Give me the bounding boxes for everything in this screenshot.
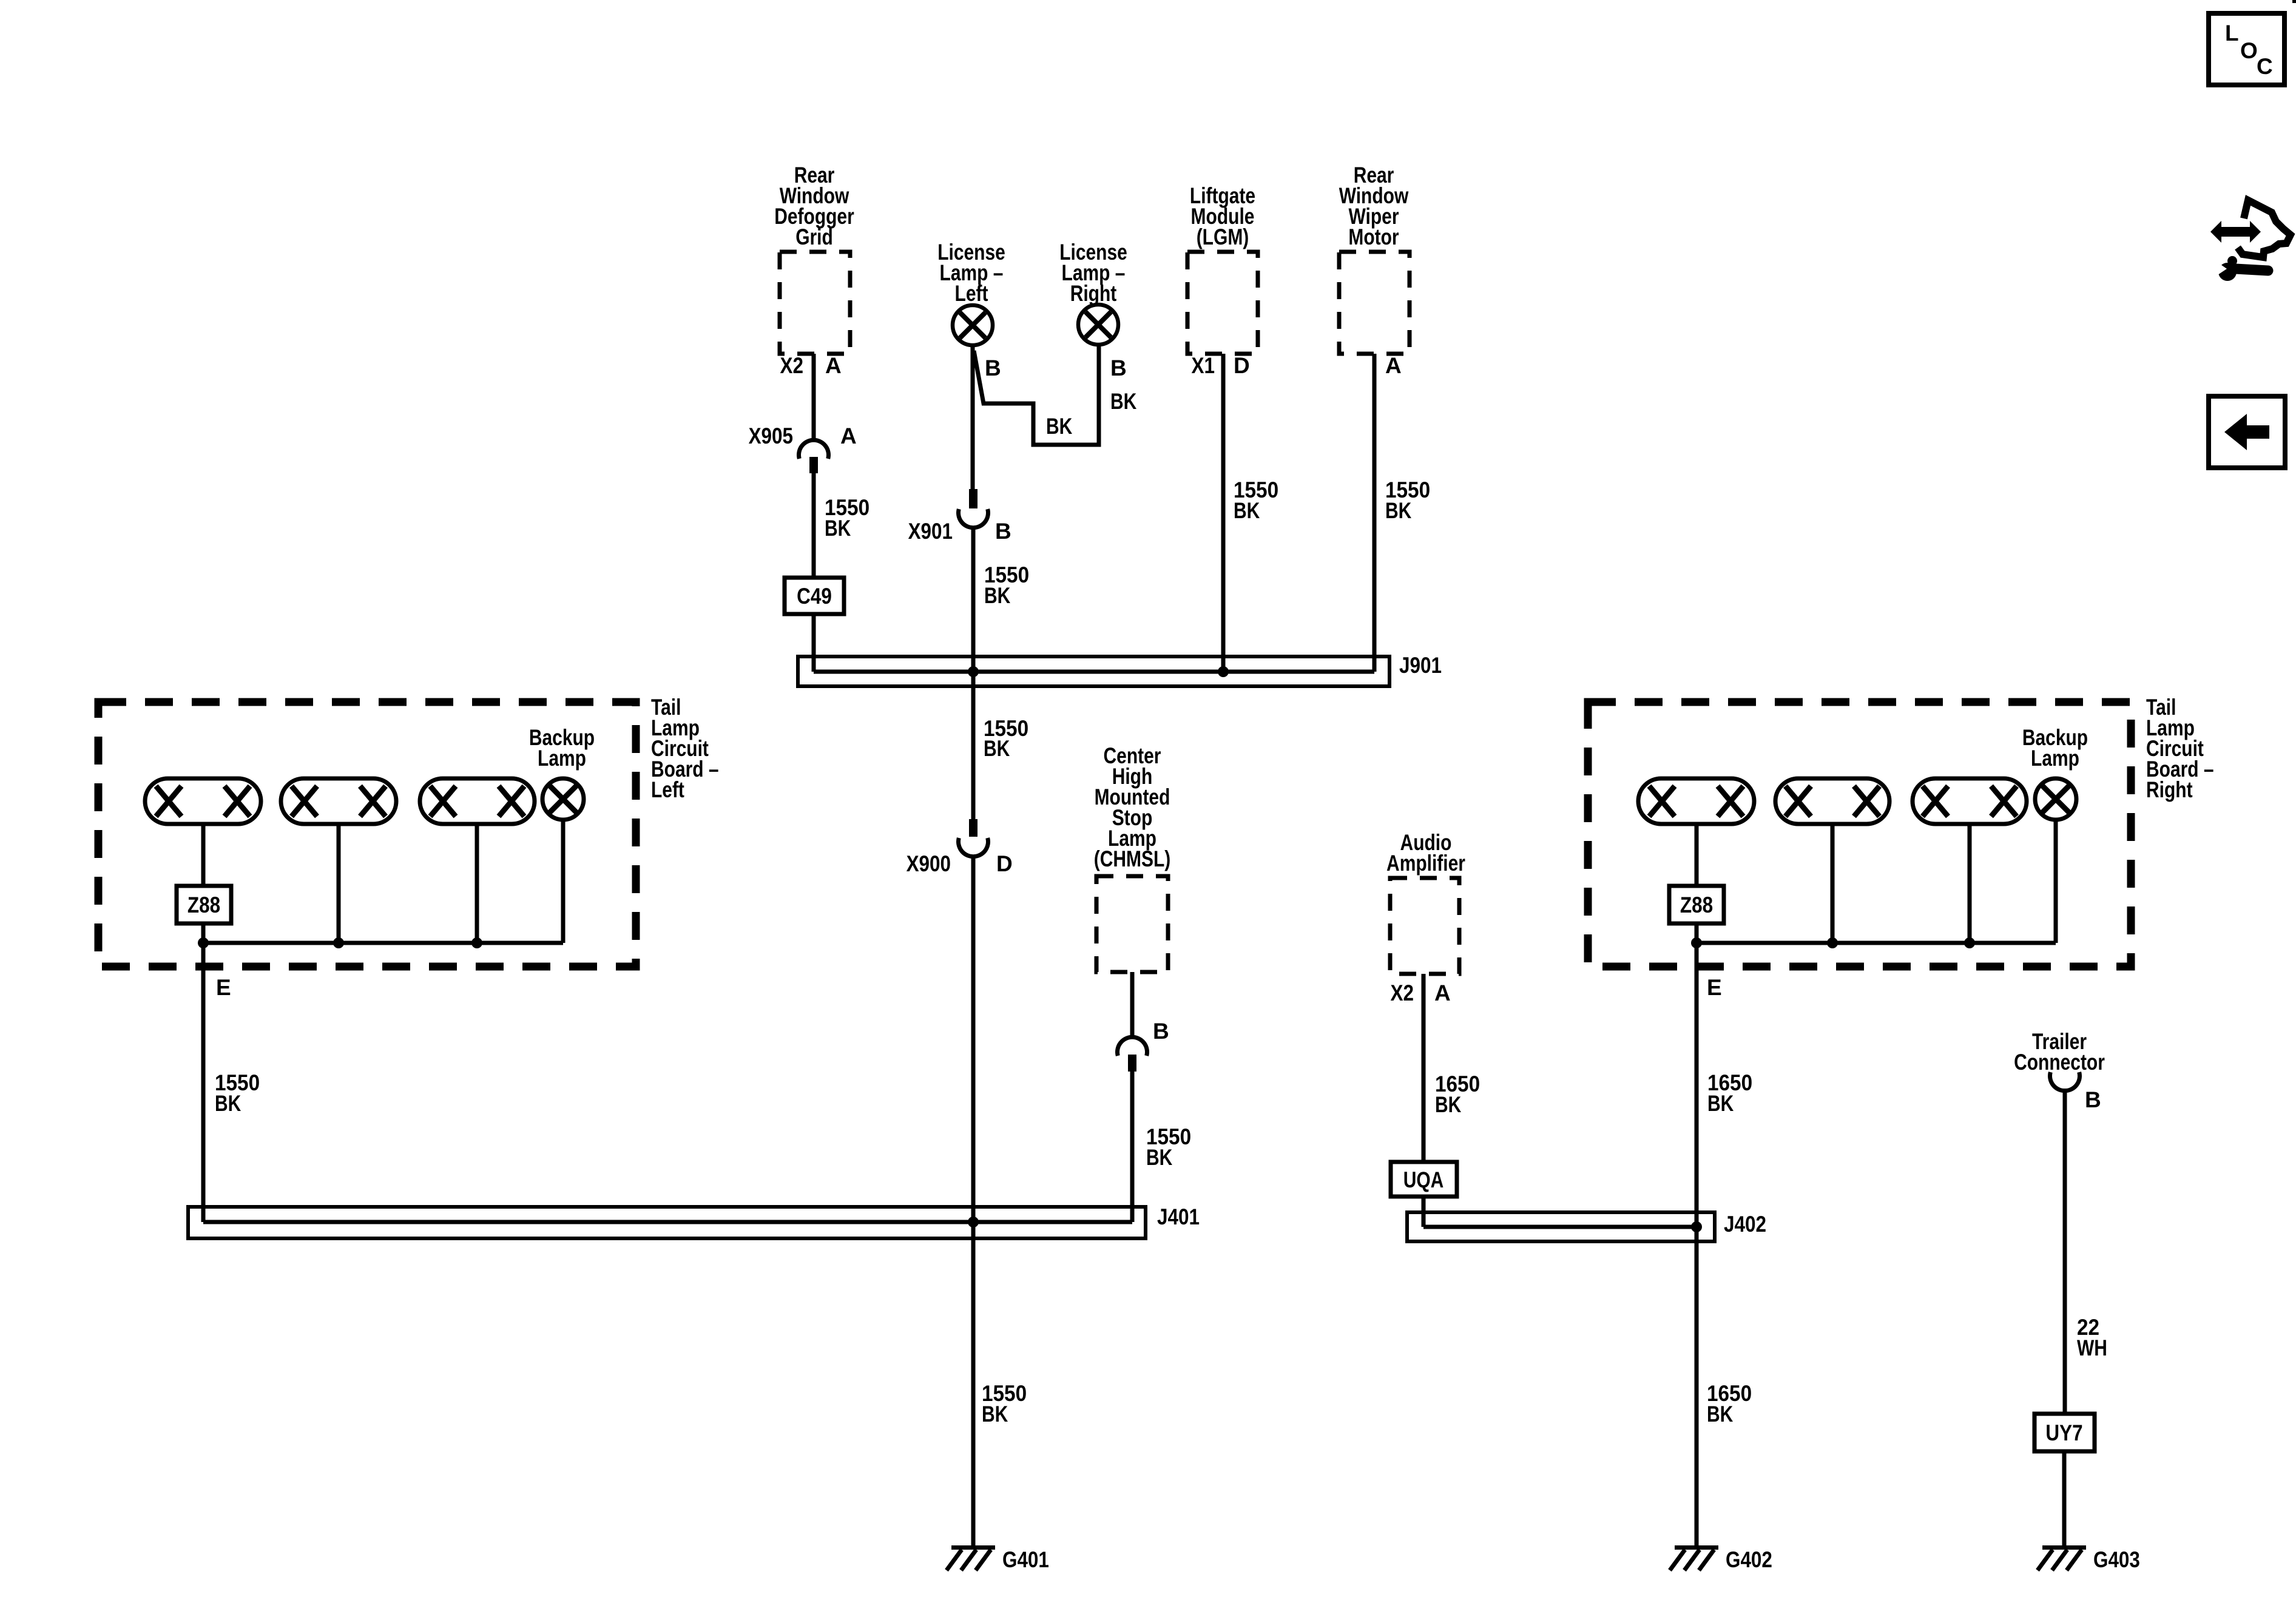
svg-text:Left: Left [955,281,988,306]
svg-text:B: B [985,356,1001,380]
svg-text:A: A [1385,353,1402,378]
pin label B (CHMSL) [1153,1019,1169,1044]
svg-text:BK: BK [215,1091,241,1116]
wire backup lamp drop (right) [2054,820,2058,943]
wire left board to J401 [203,943,260,1222]
svg-text:Z88: Z88 [1680,893,1713,917]
backup lamp bulb (right) [2035,778,2076,820]
wire CHMSL to connector B [1130,972,1135,1039]
svg-text:(CHMSL): (CHMSL) [1094,846,1171,871]
wire LGM to J901 [1223,354,1278,672]
component Trailer Connector [2014,1029,2105,1091]
svg-text:X1: X1 [1192,353,1215,378]
svg-text:G402: G402 [1726,1547,1772,1572]
pin label X2 A [780,353,842,378]
pin label B (license left) [985,356,1001,380]
svg-text:BK: BK [825,516,851,541]
svg-text:Amplifier: Amplifier [1386,851,1465,876]
wire license right jog to left wire [974,345,1137,445]
wire Z88 to bus (left) [201,923,206,943]
svg-text:Motor: Motor [1348,224,1399,249]
svg-text:BK: BK [1435,1092,1462,1117]
svg-text:J401: J401 [1157,1204,1200,1229]
wire defogger to X905 [812,354,816,442]
option code UY7 [2034,1414,2095,1451]
component Audio Amplifier (dashed box) [1386,830,1465,974]
svg-text:D: D [996,851,1013,876]
component License Lamp - Right (bulb) [1059,240,1127,345]
connector CHMSL inline [1118,1037,1147,1072]
wire backup lamp drop (left) [561,820,566,943]
svg-text:L: L [2225,21,2239,46]
svg-text:X900: X900 [907,851,951,876]
connector X905 [749,424,857,473]
wire lamp L1 to Z88 [201,824,206,886]
pin label E (right) [1707,975,1722,1000]
wire J402 to G402 [1697,1227,1752,1545]
svg-text:UQA: UQA [1403,1167,1444,1192]
svg-text:B: B [995,519,1011,544]
lamp L2 (left board obround) [281,778,396,824]
label Backup Lamp (left) [529,725,595,771]
component Rear Window Defogger Grid (dashed box) [774,163,854,354]
svg-text:WH: WH [2077,1335,2107,1360]
wire X905 to C49 [814,473,869,578]
ground G401 [947,1545,1049,1572]
svg-text:A: A [1434,981,1451,1005]
svg-text:A: A [840,424,857,448]
svg-text:G401: G401 [1002,1547,1049,1572]
component Rear Window Wiper Motor (dashed box) [1339,163,1410,354]
svg-text:BK: BK [1146,1145,1173,1170]
label Backup Lamp (right) [2022,725,2088,771]
svg-text:UY7: UY7 [2045,1420,2082,1445]
option code Z88 (left) [177,886,231,923]
option code Z88 (right) [1669,886,1724,923]
svg-text:X901: X901 [908,519,953,544]
svg-text:Lamp: Lamp [538,746,586,771]
pin label B (license right) [1110,356,1127,380]
svg-text:Lamp: Lamp [2031,746,2079,771]
icon remove/install (arrow, panel outline, wrench) [2207,200,2291,281]
svg-text:B: B [1110,356,1127,380]
svg-text:BK: BK [984,583,1011,608]
svg-text:A: A [825,353,842,378]
splice pack J901 [798,653,1442,686]
wire wiper to J901 [1374,354,1430,672]
junction dot J402 right wire [1691,1221,1702,1232]
svg-text:G403: G403 [2093,1547,2140,1572]
lamp L1 (left board obround) [145,778,261,824]
component Liftgate Module LGM (dashed box) [1187,183,1258,354]
svg-text:B: B [2085,1087,2101,1112]
junction dot J401 center wire [968,1217,979,1227]
option code UQA [1391,1162,1457,1197]
lamp R2 (right board obround) [1775,778,1889,824]
connector X900 [907,819,1013,876]
svg-text:BK: BK [1385,498,1412,523]
splice pack J401 [188,1204,1200,1238]
pin label A (wiper) [1385,353,1402,378]
wire right board to J402 [1697,943,1752,1227]
svg-text:E: E [216,975,231,1000]
wire Z88 to bus (right) [1695,923,1699,943]
wire lamp R1 to Z88 [1695,824,1699,886]
svg-text:BK: BK [982,1402,1008,1426]
wire license left to X901 [971,345,975,489]
pin label X1 D [1192,353,1250,378]
connector X901 [908,489,1011,544]
component Tail Lamp Circuit Board - Right (dashed box) [1588,695,2214,967]
svg-text:J901: J901 [1399,653,1442,678]
svg-text:J402: J402 [1724,1212,1766,1237]
svg-text:BK: BK [1110,389,1137,414]
wire UQA to J402 [1422,1197,1426,1227]
pin label B (trailer) [2085,1087,2101,1112]
lamp R1 (right board obround) [1638,778,1754,824]
wire J401 to G401 [973,1222,1027,1545]
lamp R3 (right board obround) [1913,778,2027,824]
wire lamp R3 drop [1968,824,1972,943]
bus in left board [203,941,563,945]
svg-text:X2: X2 [1391,981,1414,1005]
svg-text:Z88: Z88 [187,893,220,917]
ground G402 [1670,1545,1772,1572]
component License Lamp - Left (bulb) [937,240,1005,345]
option code C49 [785,578,844,614]
svg-text:Right: Right [1070,281,1117,306]
svg-text:BK: BK [1707,1091,1734,1116]
svg-text:BK: BK [984,736,1010,761]
lamp L3 (left board obround) [420,778,535,824]
svg-text:X905: X905 [749,424,793,448]
pin label X2 A (audio) [1391,981,1451,1005]
svg-text:BK: BK [1046,414,1073,439]
wire CHMSL to J401 [1132,1072,1191,1222]
svg-text:D: D [1234,353,1250,378]
icon back arrow box [2209,396,2285,468]
svg-text:O: O [2240,38,2258,63]
wire lamp L2 drop [337,824,341,943]
wire C49 to J901 [812,614,816,672]
junction dot J901-LGM wire [1218,666,1229,677]
wire X900 to J401 [971,855,976,1222]
page corner mark [2292,0,2296,3]
svg-text:X2: X2 [780,353,804,378]
svg-text:E: E [1707,975,1722,1000]
wire trailer to UY7 [2065,1089,2107,1414]
splice pack J402 [1407,1212,1766,1241]
svg-text:Connector: Connector [2014,1050,2105,1075]
wire lamp R2 drop [1831,824,1835,943]
junction dots right board bus [1691,937,1975,948]
svg-text:Right: Right [2146,777,2193,802]
pin label E (left) [216,975,231,1000]
wire lamp L3 drop [475,824,479,943]
wire audio to UQA [1423,974,1480,1162]
component Tail Lamp Circuit Board - Left (dashed box) [98,695,719,967]
svg-text:C: C [2257,54,2273,79]
wire X901 to J901 [973,526,1029,672]
component Center High Mounted Stop Lamp CHMSL (dashed box) [1094,743,1171,972]
backup lamp bulb (left) [542,778,584,820]
wire J901 to X900 [973,672,1028,819]
svg-text:(LGM): (LGM) [1197,224,1249,249]
svg-text:C49: C49 [797,584,832,609]
junction dots left board bus [198,937,482,948]
svg-text:BK: BK [1234,498,1260,523]
svg-text:Left: Left [651,777,684,802]
ground G403 [2038,1545,2140,1572]
bus in right board [1697,941,2056,945]
wire UY7 to G403 [2062,1451,2067,1545]
svg-text:B: B [1153,1019,1169,1044]
icon LOC (location) box [2209,13,2284,85]
junction dot J901-X900 wire [968,666,979,677]
svg-text:BK: BK [1707,1402,1734,1426]
svg-text:Grid: Grid [795,224,833,249]
